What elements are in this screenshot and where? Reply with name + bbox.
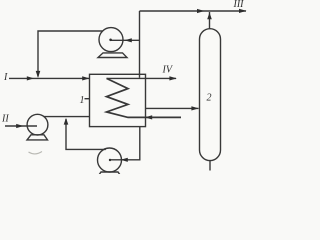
svg-text:2: 2 [207,93,212,104]
svg-text:I: I [3,72,8,83]
svg-text:III: III [233,0,245,10]
svg-text:1: 1 [80,95,85,106]
svg-text:II: II [1,114,9,125]
